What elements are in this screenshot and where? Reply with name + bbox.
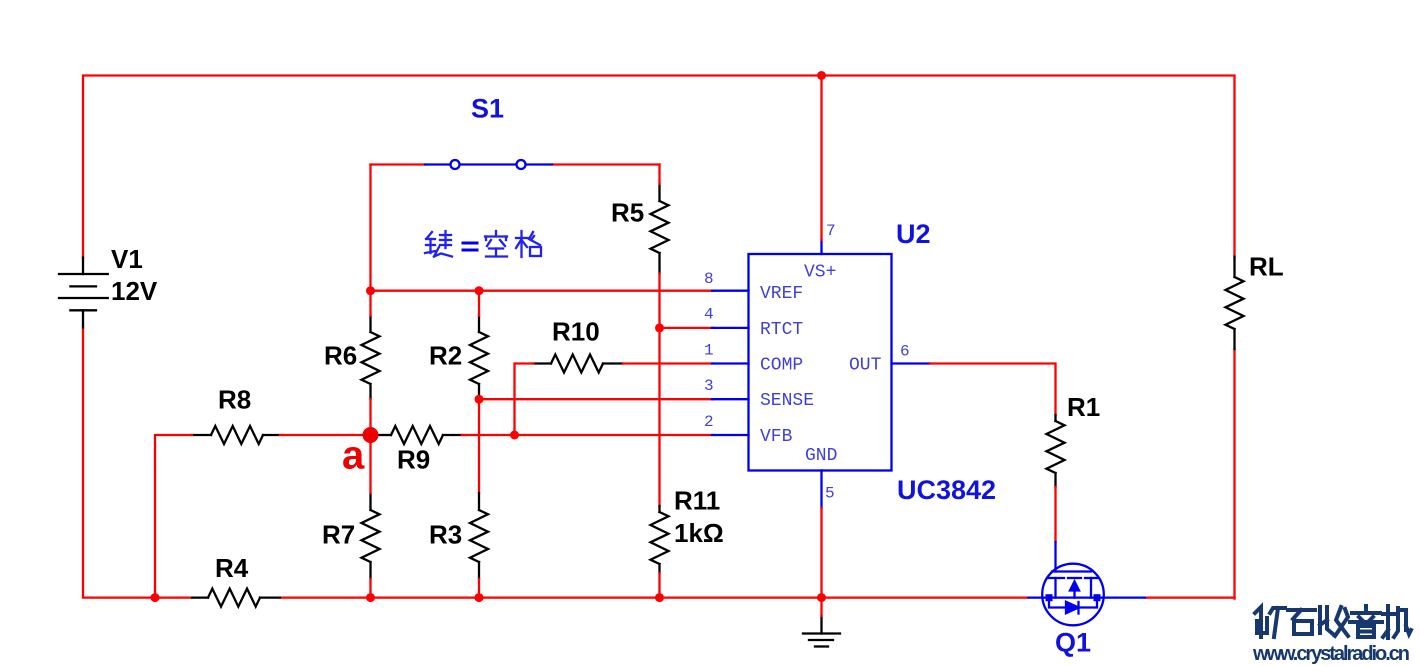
svg-text:12V: 12V xyxy=(111,276,158,306)
switch S1 xyxy=(425,160,552,169)
resistor R1 xyxy=(1047,415,1065,487)
svg-text:RTCT: RTCT xyxy=(760,320,803,340)
svg-text:R5: R5 xyxy=(611,198,644,228)
label key = space xyxy=(425,231,452,257)
wire R7 leads xyxy=(369,435,371,493)
svg-text:7: 7 xyxy=(826,222,836,240)
wire right RL lower xyxy=(1233,349,1235,599)
resistor R8 xyxy=(192,426,280,444)
battery V1 xyxy=(59,258,108,328)
resistor R6 xyxy=(362,316,380,399)
svg-text:R11: R11 xyxy=(674,486,720,516)
svg-text:6: 6 xyxy=(900,343,910,361)
resistor R10 xyxy=(534,355,624,373)
resistor R9 xyxy=(379,426,462,444)
wire pin 7 VS+ xyxy=(820,76,822,241)
wire R8 left + left vertical xyxy=(155,435,192,598)
svg-text:5: 5 xyxy=(825,485,835,503)
junction top xyxy=(817,71,826,80)
junction bottom R7 xyxy=(366,593,375,602)
wire pin 5 GND xyxy=(820,508,822,598)
svg-text:www.crystalradio.cn: www.crystalradio.cn xyxy=(1252,643,1410,665)
svg-text:V1: V1 xyxy=(111,244,143,274)
svg-text:VREF: VREF xyxy=(760,284,803,304)
svg-text:3: 3 xyxy=(704,377,714,395)
U2 pin stubs xyxy=(712,240,930,508)
wire R5 top xyxy=(658,165,660,185)
IC U2 UC3842 xyxy=(749,254,892,471)
resistor R4 xyxy=(192,589,280,607)
svg-text:2: 2 xyxy=(704,413,714,431)
wire SENSE xyxy=(479,398,713,400)
svg-text:R3: R3 xyxy=(429,520,462,550)
wire R10 left stub xyxy=(515,364,534,436)
svg-text:8: 8 xyxy=(704,270,714,288)
wire VFB from R9 to pin 2 xyxy=(462,434,713,436)
resistor R2 xyxy=(470,316,488,399)
resistor R5 xyxy=(651,184,669,274)
svg-text:VS+: VS+ xyxy=(804,263,836,283)
svg-text:OUT: OUT xyxy=(849,356,882,376)
wire S1 left red xyxy=(371,163,426,165)
junction SENSE xyxy=(475,395,484,404)
wire OUT to R1 xyxy=(930,364,1056,416)
svg-text:COMP: COMP xyxy=(760,356,803,376)
wire RTCT xyxy=(660,327,714,329)
wire VREF bus xyxy=(371,290,714,292)
resistor R11 xyxy=(651,506,669,573)
svg-text:S1: S1 xyxy=(471,93,504,123)
junction bottom left xyxy=(151,593,160,602)
svg-text:R2: R2 xyxy=(429,341,462,371)
wire top bus V1+ to RL xyxy=(83,76,1235,259)
junction RTCT xyxy=(655,323,664,332)
wire bottom bus middle xyxy=(280,596,1029,598)
svg-text:UC3842: UC3842 xyxy=(897,475,996,505)
wire S1 right red xyxy=(552,163,660,165)
svg-text:U2: U2 xyxy=(896,219,931,249)
resistor R7 xyxy=(362,493,380,579)
wire R6 leads xyxy=(369,291,371,316)
svg-text:R10: R10 xyxy=(552,317,600,347)
svg-text:RL: RL xyxy=(1249,252,1284,282)
svg-text:R7: R7 xyxy=(322,520,355,550)
node a xyxy=(363,427,379,443)
junction bottom R3 xyxy=(475,593,484,602)
junction R2 bus xyxy=(475,286,484,295)
svg-text:4: 4 xyxy=(704,306,714,324)
wire R2 leads xyxy=(478,291,480,316)
wire R1 to gate xyxy=(1054,487,1056,542)
svg-text:R4: R4 xyxy=(215,553,249,583)
resistor R3 xyxy=(470,493,488,579)
watermark logo xyxy=(1255,606,1411,638)
wire bottom bus right of Q1 xyxy=(1145,596,1235,598)
junction bottom R11 xyxy=(655,593,664,602)
svg-text:a: a xyxy=(342,434,365,478)
svg-text:VFB: VFB xyxy=(760,427,793,447)
transistor Q1 xyxy=(1029,542,1145,625)
wire left lower V1- to bottom bus xyxy=(83,327,192,598)
svg-text:R9: R9 xyxy=(397,445,430,475)
ground xyxy=(803,616,840,647)
svg-text:Q1: Q1 xyxy=(1055,628,1091,658)
wire R10 to COMP xyxy=(623,362,713,364)
junction R10 VFB xyxy=(510,431,519,440)
svg-text:R1: R1 xyxy=(1067,392,1100,422)
wire R3 bottom lead xyxy=(478,579,480,598)
svg-text:1: 1 xyxy=(704,342,714,360)
svg-text:GND: GND xyxy=(805,446,837,466)
wire R5 bottom to RTCT to R11 xyxy=(658,274,660,507)
svg-text:R8: R8 xyxy=(218,385,251,415)
svg-text:SENSE: SENSE xyxy=(760,391,814,411)
wire ground stub xyxy=(820,598,822,616)
wire S1 left vertical xyxy=(369,165,371,291)
svg-text:R6: R6 xyxy=(324,341,357,371)
wire R8 right xyxy=(280,434,371,436)
svg-text:1kΩ: 1kΩ xyxy=(674,518,724,548)
resistor RL xyxy=(1226,257,1244,349)
wire R11 bottom xyxy=(658,573,660,598)
junction S1/R6 bus xyxy=(366,286,375,295)
junction bottom GND xyxy=(817,593,826,602)
